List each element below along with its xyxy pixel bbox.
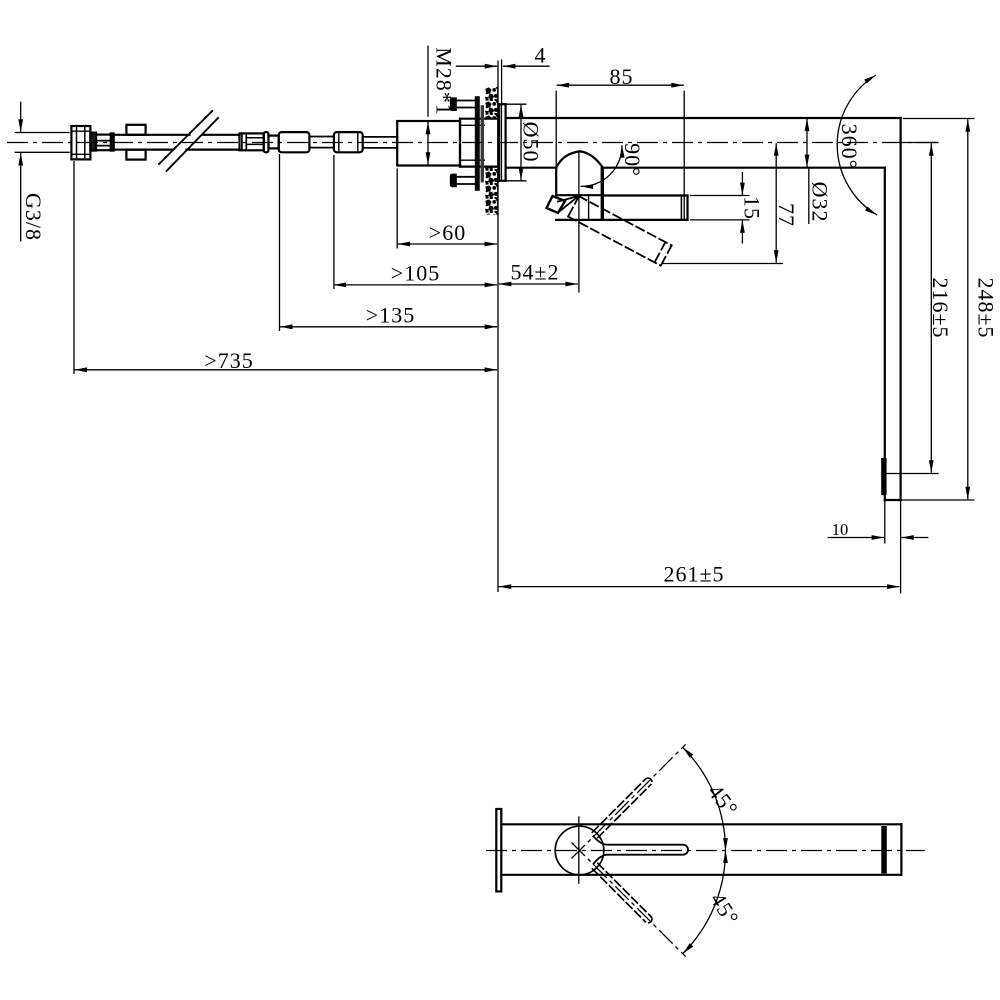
- dim M28*1: [427, 46, 429, 165]
- dim 10: [828, 500, 929, 594]
- svg-text:15: 15: [740, 196, 765, 220]
- svg-text:216±5: 216±5: [928, 277, 953, 338]
- topview axis up45: [572, 744, 686, 858]
- connector block 2: [334, 132, 363, 152]
- hose coupling ribbed: [240, 133, 264, 150]
- dim 261: [499, 586, 900, 588]
- spout horizontal tube: [506, 118, 901, 168]
- dim 45deg lower arc: [683, 851, 726, 954]
- threaded shank: [460, 119, 498, 167]
- reference extension line: [497, 61, 499, 593]
- dim gt60: [397, 169, 497, 249]
- handle lever phantom 30deg: [568, 196, 672, 266]
- dim 248: [901, 119, 975, 501]
- svg-text:360°: 360°: [837, 124, 862, 170]
- coupling step: [269, 136, 279, 149]
- svg-text:85: 85: [610, 64, 634, 89]
- topview handle circle: [555, 826, 604, 875]
- escutcheon flange: [499, 104, 506, 181]
- dim 54: [499, 283, 578, 285]
- svg-text:54±2: 54±2: [510, 260, 559, 285]
- G3/8 hex nut: [71, 126, 90, 159]
- dim D32: [807, 119, 809, 224]
- dim G3/8 hose dia: [15, 102, 70, 242]
- clamp plate 1: [475, 96, 480, 191]
- svg-text:>735: >735: [204, 348, 253, 373]
- topview tube: [501, 824, 901, 875]
- break mark: [159, 111, 218, 171]
- nut collar: [90, 133, 96, 151]
- svg-text:Ø32: Ø32: [808, 182, 833, 223]
- dim 77: [662, 143, 783, 263]
- dim gt735: [74, 161, 497, 374]
- aerator outlet bar: [881, 458, 886, 495]
- hose clamp tabs: [126, 125, 145, 160]
- dim 45deg upper arc: [683, 747, 726, 850]
- dim 90deg arc: [581, 145, 622, 186]
- coupling ring: [264, 132, 269, 152]
- topview flange: [496, 809, 501, 891]
- handle lever bar: [556, 196, 687, 220]
- svg-text:45°: 45°: [703, 779, 744, 821]
- svg-text:M28*1: M28*1: [432, 47, 457, 116]
- svg-text:>135: >135: [366, 303, 415, 328]
- spout vertical pipe: [885, 118, 901, 500]
- mounting bolt bottom: [450, 174, 475, 188]
- svg-text:Ø50: Ø50: [519, 122, 544, 163]
- dim 4: [456, 60, 550, 105]
- topview circle vertical centerline: [578, 816, 580, 884]
- svg-text:G3/8: G3/8: [21, 193, 46, 241]
- hose collar 2: [111, 133, 114, 150]
- topview aerator bar: [881, 826, 887, 874]
- svg-text:>105: >105: [391, 261, 440, 286]
- mounting bolt top: [450, 97, 475, 111]
- svg-text:10: 10: [832, 520, 849, 539]
- topview phantom lever up45: [592, 778, 652, 838]
- countertop face line: [497, 87, 499, 215]
- faucet body block: [397, 121, 460, 166]
- svg-text:248±5: 248±5: [974, 277, 999, 338]
- svg-text:45°: 45°: [705, 888, 744, 930]
- supply hose: [114, 135, 240, 150]
- svg-text:261±5: 261±5: [663, 562, 724, 587]
- dim 15: [690, 172, 750, 244]
- topview phantom lever down45: [592, 863, 652, 923]
- dim gt135: [280, 154, 498, 331]
- topview axis down45: [572, 843, 686, 957]
- countertop cross-section stipple: [485, 87, 498, 215]
- handle dome joint: [556, 151, 603, 220]
- pipe segment: [309, 137, 334, 148]
- dim 216: [886, 143, 939, 474]
- dim 360deg arc: [837, 75, 877, 215]
- compression ribs: [96, 135, 114, 151]
- svg-text:4: 4: [535, 43, 547, 68]
- main centerline: [7, 142, 938, 144]
- topview centerline: [486, 850, 925, 852]
- dim 85: [556, 85, 684, 220]
- dim D50: [506, 104, 527, 181]
- svg-text:90°: 90°: [620, 143, 645, 177]
- pivot extension line: [578, 151, 580, 292]
- inlet pipe: [363, 137, 398, 148]
- clamp plate 2: [481, 105, 484, 182]
- connector block 1: [279, 132, 310, 152]
- handle grip end cap tilted: [547, 196, 579, 213]
- dim gt105: [334, 155, 498, 289]
- topview lever slot: [593, 836, 688, 864]
- svg-text:>60: >60: [429, 220, 466, 245]
- svg-text:77: 77: [774, 203, 799, 227]
